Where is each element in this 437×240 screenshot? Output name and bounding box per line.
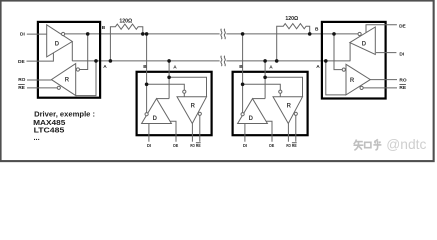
U4 A tap wire from bus	[264, 61, 266, 99]
receiver R of U1	[51, 64, 75, 96]
wire: U1 A junction down to receiver corner	[76, 61, 96, 96]
outer frame	[1, 1, 434, 162]
svg-text:DI: DI	[399, 52, 404, 58]
pin RO label of U3	[190, 143, 195, 148]
svg-text:DE: DE	[269, 143, 274, 148]
caption text: Driver, exemple	[34, 110, 95, 119]
junction dot R2 left on A	[275, 59, 279, 63]
pin RO wire of U1	[27, 79, 51, 81]
pin DE label of U4	[269, 143, 274, 148]
svg-text:RE: RE	[292, 143, 297, 148]
watermark zhihu logo glyphs	[354, 139, 382, 150]
driver D of U3 (pointing up)	[142, 99, 172, 124]
U4 B tap wire from bus	[242, 34, 244, 113]
wire: U2 driver bubble junction to receiver bubble	[334, 34, 342, 70]
svg-text:RO: RO	[399, 77, 406, 83]
cable break mark on wire B	[221, 29, 226, 39]
junction dot on A inside U1	[94, 59, 98, 63]
caption text: LTC485	[34, 125, 65, 134]
pin DI wire of U4	[244, 124, 246, 142]
svg-text:DE: DE	[18, 59, 25, 65]
receiver input bubble (from B) of U4	[279, 90, 282, 97]
bus wire A (bottom line)	[72, 60, 350, 62]
receiver enable bubble of U1	[57, 86, 60, 89]
wire: U2 driver tip down to A line	[349, 43, 351, 61]
svg-text:RE: RE	[196, 143, 201, 148]
node B label (left)	[102, 25, 106, 31]
transceiver U3 box (bottom left)	[137, 72, 212, 135]
caption text: MAX485	[33, 118, 65, 127]
svg-text:DE: DE	[173, 143, 178, 148]
receiver R of U3 (pointing down)	[177, 97, 207, 124]
label D of U2	[362, 41, 367, 47]
node A label of U3	[173, 64, 177, 70]
driver D of U4 (pointing up)	[238, 99, 268, 124]
receiver R of U2 (pointing right)	[346, 64, 370, 95]
wire: U4 B tap junction to receiver bubble	[243, 84, 281, 90]
pin RE wire of U2	[363, 87, 397, 89]
svg-text:RE: RE	[399, 85, 406, 91]
junction dot R1 left on A	[109, 59, 113, 63]
pin DE wire of U4	[266, 121, 272, 142]
junction dot on A inside U2	[324, 59, 328, 63]
label D of U4	[249, 116, 254, 122]
svg-text:120Ω: 120Ω	[119, 18, 132, 24]
pin RE label of U1 (with overline)	[18, 84, 25, 91]
svg-text:DI: DI	[20, 31, 25, 37]
driver D of U2 (pointing left)	[350, 27, 376, 55]
svg-text:B: B	[143, 64, 147, 70]
bus wire B (top line)	[65, 33, 358, 35]
pin DI label of U1	[20, 31, 25, 37]
wire: U1 driver bubble junction to receiver bubble	[80, 34, 88, 70]
pin DI label of U2	[399, 52, 404, 58]
receiver R of U4 (pointing down)	[273, 97, 303, 124]
label R of U1	[65, 77, 70, 83]
svg-text:B: B	[102, 25, 106, 31]
svg-text:A: A	[103, 64, 107, 70]
receiver enable bubble of U4	[294, 112, 297, 115]
svg-text:D: D	[153, 116, 158, 122]
svg-text:R: R	[350, 78, 355, 84]
driver D of U1	[47, 25, 73, 57]
junction dot U3 B tap	[145, 32, 149, 36]
U3 A tap wire from bus	[168, 61, 170, 99]
junction dot R2 right on B	[308, 32, 312, 36]
receiver enable bubble of U2	[360, 86, 363, 89]
svg-text:D: D	[362, 41, 367, 47]
pin DE wire of U3	[170, 121, 176, 142]
label R of U2	[350, 78, 355, 84]
junction dot on B inside U2	[332, 32, 336, 36]
svg-text:A: A	[316, 64, 320, 70]
transceiver U1 box (left)	[38, 22, 100, 98]
receiver input bubble (from B) of U3	[183, 90, 186, 97]
receiver input bubble (from B) of U2	[342, 68, 345, 71]
junction dot on U4 A branch	[263, 76, 267, 80]
pin DI label of U3	[147, 143, 151, 148]
node A label (left)	[103, 64, 107, 70]
watermark @ndtc	[386, 137, 426, 152]
svg-text:RO: RO	[18, 77, 25, 83]
svg-text:RO: RO	[190, 143, 195, 148]
node A label (right)	[316, 64, 320, 70]
wire: U4 driver tip to A tap	[253, 98, 266, 100]
pin RO label of U1	[18, 77, 25, 83]
wire: U3 A junction to receiver corner	[169, 77, 206, 97]
svg-text:DI: DI	[243, 143, 247, 148]
junction dot on U3 A branch	[167, 76, 171, 80]
junction dot on B inside U1	[86, 32, 90, 36]
junction dot on U4 B branch	[241, 83, 245, 87]
label 120 ohm of R1	[119, 18, 132, 24]
transceiver U4 box (bottom right)	[233, 72, 308, 135]
svg-text:B: B	[315, 26, 319, 32]
pin RO wire of U3	[191, 124, 193, 142]
svg-text:DE: DE	[399, 23, 406, 29]
pin RO wire of U4	[287, 124, 289, 142]
svg-text:R: R	[191, 103, 196, 109]
svg-text:D: D	[249, 116, 254, 122]
pin DE label of U3	[173, 143, 178, 148]
pin DI label of U4	[243, 143, 247, 148]
pin DE wire of U2	[366, 25, 397, 33]
pin DE label of U1	[18, 59, 25, 65]
pin RO label of U4	[286, 143, 291, 148]
pin DE label of U2	[399, 23, 406, 29]
svg-text:B: B	[239, 64, 243, 70]
svg-text:DI: DI	[147, 143, 151, 148]
pin RE wire of U1	[27, 87, 57, 89]
junction dot U4 B tap	[241, 32, 245, 36]
pin RE label of U3 (with overline)	[196, 143, 201, 148]
wire: U2 A junction down to receiver corner	[326, 61, 346, 95]
driver bubble of U4	[241, 113, 244, 116]
label D of U3	[153, 116, 158, 122]
receiver enable bubble of U3	[198, 112, 201, 115]
node B label of U4	[239, 64, 243, 70]
svg-text:RO: RO	[286, 143, 291, 148]
node B label of U3	[143, 64, 147, 70]
wire: U1 driver tip down to A line	[71, 42, 73, 61]
junction dot R1 right on B	[141, 32, 145, 36]
junction dot on U3 B branch	[145, 83, 149, 87]
caption text: ellipsis	[34, 133, 40, 142]
pin DI wire of U2	[376, 52, 396, 54]
pin DE wire of U1	[27, 53, 54, 61]
driver bubble of U3	[145, 113, 148, 116]
pin RE wire of U3	[199, 115, 201, 141]
svg-text:R: R	[65, 77, 70, 83]
label 120 ohm of R2	[285, 16, 298, 22]
junction dot U4 A tap	[263, 59, 267, 63]
svg-text:A: A	[269, 64, 273, 70]
transceiver U2 box (right)	[322, 22, 386, 99]
wire: U4 A junction to receiver corner	[265, 77, 302, 97]
wire: U3 B tap junction to receiver bubble	[147, 84, 185, 90]
cable break mark on wire A	[221, 56, 226, 66]
receiver input bubble (from B) of U1	[76, 68, 79, 71]
resistor R2 120 ohm	[277, 24, 310, 61]
pin RE label of U4 (with overline)	[292, 143, 297, 148]
svg-text:...: ...	[34, 133, 40, 142]
label R of U3	[191, 103, 196, 109]
pin DI wire of U3	[148, 124, 150, 142]
pin RE wire of U4	[295, 115, 297, 141]
pin RO label of U2	[399, 77, 406, 83]
junction dot U3 A tap	[167, 59, 171, 63]
pin RE label of U2 (with overline)	[399, 85, 406, 92]
svg-text:R: R	[287, 103, 292, 109]
label R of U4	[287, 103, 292, 109]
node A label of U4	[269, 64, 273, 70]
resistor R1 120 ohm	[110, 24, 142, 61]
svg-text:@ndtc: @ndtc	[386, 137, 426, 152]
label D of U1	[55, 41, 60, 47]
pin DI wire of U1	[27, 33, 47, 35]
node B label (right)	[315, 26, 319, 32]
svg-text:120Ω: 120Ω	[285, 16, 298, 22]
pin RO wire of U2	[370, 79, 397, 81]
inverting output bubble of U2 driver	[358, 32, 361, 35]
svg-text:A: A	[173, 64, 177, 70]
inverting output bubble of U1 driver	[62, 32, 65, 35]
U3 B tap wire from bus	[146, 34, 148, 113]
wire: U3 driver tip to A tap	[157, 98, 170, 100]
svg-text:D: D	[55, 41, 60, 47]
svg-text:Driver, exemple :: Driver, exemple :	[34, 110, 95, 119]
svg-text:RE: RE	[18, 85, 25, 91]
